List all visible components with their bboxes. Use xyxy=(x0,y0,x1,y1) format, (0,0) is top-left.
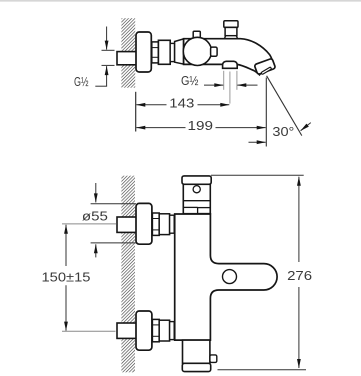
svg-text:199: 199 xyxy=(188,118,214,133)
upper union ring 2 (bottom view) xyxy=(159,214,169,235)
lower union ring 2 (bottom view) xyxy=(159,320,169,341)
right tab on knob (top view) xyxy=(211,47,218,56)
top tab on body (top view) xyxy=(193,31,200,39)
upper flange (bottom view) xyxy=(136,203,152,244)
extension lines shower outlet (gray) xyxy=(223,71,225,90)
head lower partial line xyxy=(183,206,197,208)
svg-text:G½: G½ xyxy=(74,74,89,89)
upper pipe centerline / label underline (gray) xyxy=(62,223,116,225)
upper union nut (bottom view) xyxy=(152,213,159,235)
label 30deg xyxy=(272,124,294,139)
dimension: inlet G1/2 bottom tick xyxy=(102,64,115,66)
shower hose outlet bump (top view) xyxy=(223,61,238,68)
wall flange / escutcheon (top view) xyxy=(136,32,151,72)
dimension: inlet G1/2 down arrow xyxy=(106,27,108,50)
dimension: inlet G1/2 up arrow and leader xyxy=(95,66,107,86)
svg-text:30°: 30° xyxy=(272,124,294,139)
dimension 150+-15 xyxy=(42,225,91,331)
lower union ring 3 (bottom view) xyxy=(170,322,175,340)
svg-text:G½: G½ xyxy=(181,73,199,88)
diverter knob body (top view) xyxy=(225,27,237,35)
head small circle xyxy=(193,186,200,193)
30 degree slanted leader xyxy=(267,76,302,136)
svg-text:150±15: 150±15 xyxy=(42,270,91,285)
bottom foot lip xyxy=(182,363,210,371)
aerator block at spout end (top view) xyxy=(254,58,275,74)
lower flange (bottom view) xyxy=(136,311,152,350)
dimension 143 xyxy=(136,95,229,110)
diverter flare (top view) xyxy=(224,36,238,40)
union ring 3 (top view) xyxy=(170,43,174,61)
lower inlet stub (bottom view) xyxy=(117,323,137,338)
head horizontal line xyxy=(183,200,210,202)
label G1/2 shower xyxy=(181,73,199,88)
svg-text:143: 143 xyxy=(169,95,194,110)
spout tip extension line xyxy=(265,78,267,147)
diverter knob cap (top view) xyxy=(224,21,238,28)
bottom narrow section (bottom view) xyxy=(183,340,210,363)
thermostat knob circle (top view) xyxy=(183,37,211,65)
dimension 276 xyxy=(287,177,312,368)
head cap (bottom view) xyxy=(182,176,211,184)
o55 up arrow xyxy=(95,244,97,257)
dimension o55 extension top xyxy=(91,203,136,205)
svg-text:ø55: ø55 xyxy=(82,208,108,223)
30 degree arrow to vertical line xyxy=(249,141,266,143)
lower pipe centerline (gray) xyxy=(62,330,116,332)
hole circle on spout arm xyxy=(223,270,237,284)
shower outlet center extension line (gray) xyxy=(229,72,231,104)
bottom right small tab xyxy=(210,355,217,363)
aerator slot xyxy=(261,67,272,75)
lower union nut (bottom view) xyxy=(152,319,159,341)
main body column with spout arm (bottom view) xyxy=(175,214,277,340)
wall (hatched) top view xyxy=(121,18,135,88)
head body (bottom view) xyxy=(183,184,210,213)
dimension: shower G1/2 arrows xyxy=(204,84,223,86)
label o55 xyxy=(82,208,108,223)
upper inlet stub (bottom view) xyxy=(117,217,137,232)
union nut (top view) xyxy=(158,40,170,64)
30 degree arrow to slanted line xyxy=(301,123,311,131)
dimension o55 extension bottom xyxy=(91,242,136,244)
dimension: inlet G1/2 top tick xyxy=(102,49,115,51)
dimension 276 extension top xyxy=(211,174,304,176)
dimension 199 xyxy=(136,118,265,133)
mixer body and spout outline (top view) xyxy=(184,39,272,75)
wall face extension line xyxy=(135,92,137,132)
head bottom-right small rect xyxy=(198,208,211,214)
wall (hatched) bottom view xyxy=(121,176,135,373)
dimension 276 extension bottom xyxy=(218,369,307,371)
body cone (top view) xyxy=(175,39,184,64)
inlet pipe stub through wall (top view) xyxy=(117,52,137,65)
union ring 1 (top view) xyxy=(152,42,159,63)
o55 down arrow xyxy=(95,183,97,202)
svg-text:276: 276 xyxy=(287,268,312,283)
upper union ring 3 (bottom view) xyxy=(170,215,175,233)
label G1/2 inlet xyxy=(74,74,89,89)
